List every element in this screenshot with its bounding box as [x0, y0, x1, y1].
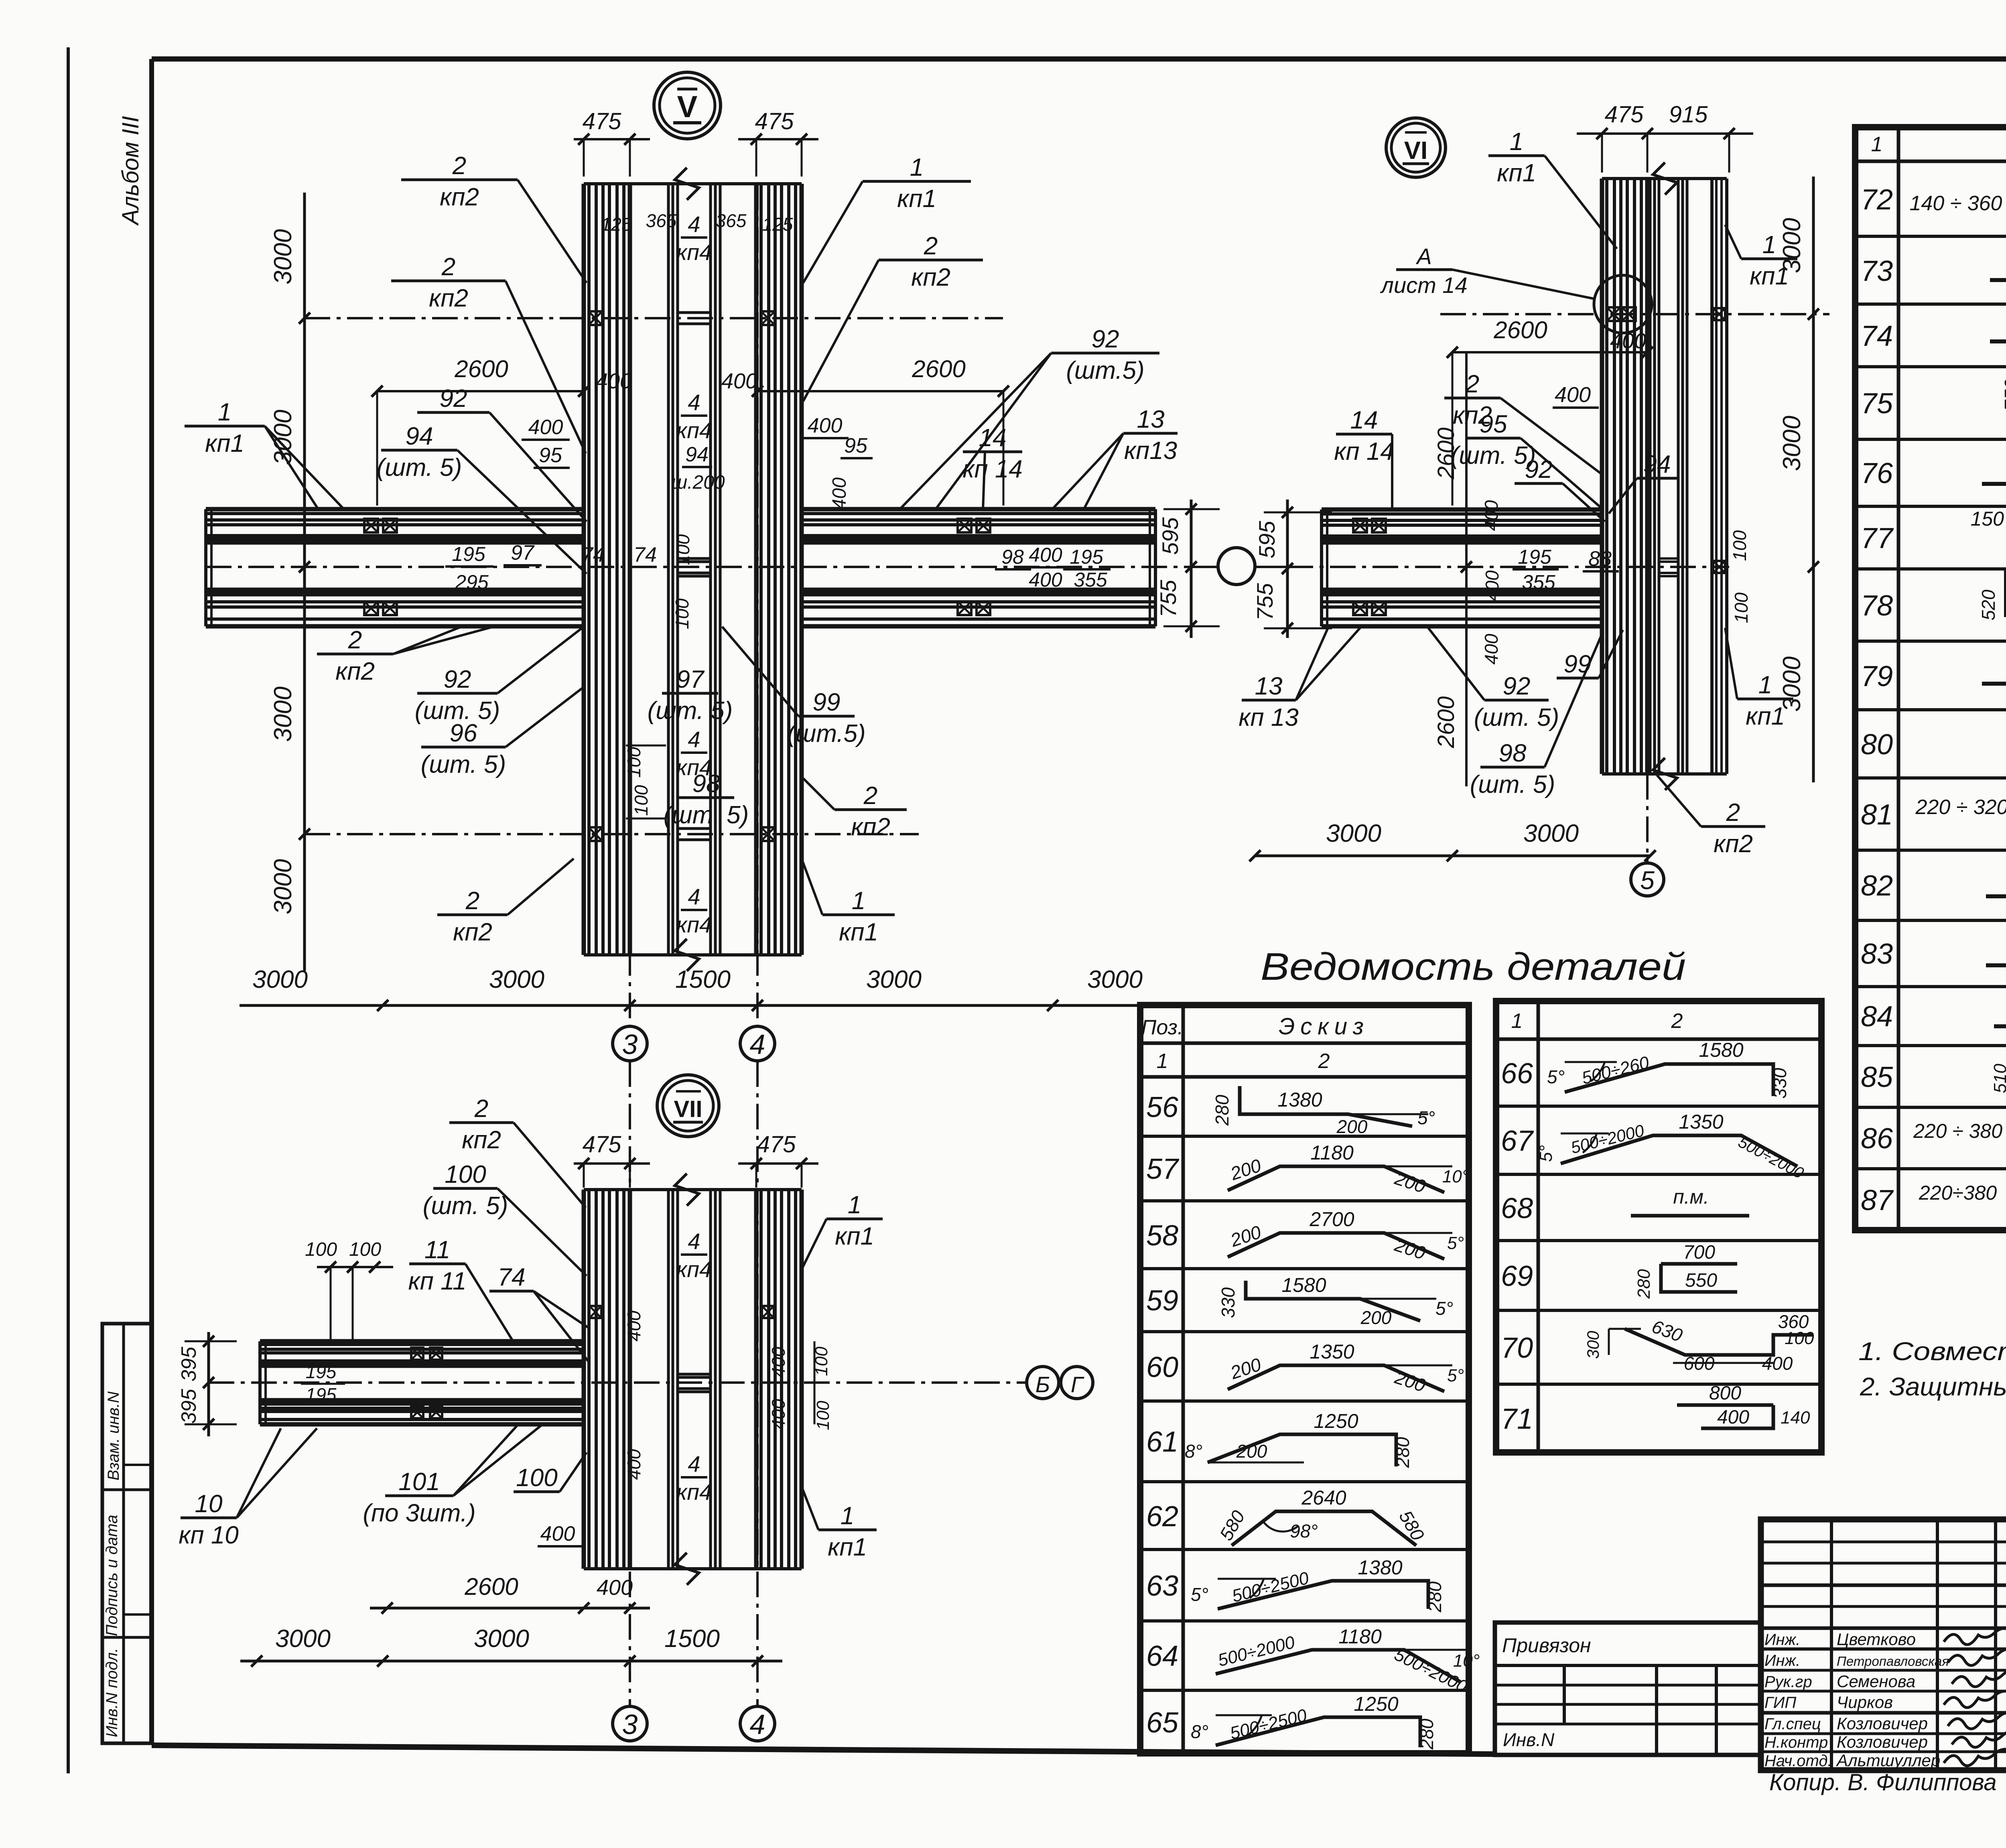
- svg-text:4: 4: [688, 211, 700, 237]
- svg-text:11: 11: [424, 1236, 450, 1264]
- svg-text:Козловичер: Козловичер: [1837, 1714, 1928, 1733]
- svg-text:кп1: кп1: [205, 430, 244, 457]
- label 1/kp1 VI right: [1737, 698, 1793, 701]
- svg-text:400: 400: [1717, 1407, 1749, 1428]
- svg-text:400: 400: [1610, 329, 1646, 353]
- detail V left dim chain 3000x4: [303, 193, 306, 971]
- svg-text:А: А: [1415, 244, 1431, 269]
- svg-text:2. Защитный слой бетона - 25: 2. Защитный слой бетона - 25мм.: [1860, 1372, 2006, 1401]
- label 94 sh5 left: [381, 449, 457, 452]
- detail V right end dims 595/755: [1190, 500, 1193, 638]
- svg-text:кп2: кп2: [335, 658, 375, 685]
- svg-text:63: 63: [1146, 1570, 1178, 1602]
- svg-text:2: 2: [924, 232, 938, 260]
- detail VI arm slabs: [1322, 508, 1602, 512]
- svg-text:V: V: [677, 90, 698, 124]
- label 92 left: [417, 411, 489, 414]
- svg-text:475: 475: [583, 108, 622, 134]
- svg-text:VII: VII: [674, 1096, 703, 1122]
- svg-text:Альбом III: Альбом III: [118, 116, 144, 226]
- svg-text:Копир. В. Филиппова: Копир. В. Филиппова: [1769, 1769, 1997, 1795]
- svg-text:395: 395: [177, 1346, 201, 1382]
- svg-text:400: 400: [829, 477, 850, 510]
- svg-text:400: 400: [623, 1449, 644, 1480]
- label 2/kp2 VII top: [449, 1121, 514, 1124]
- detail V bottom dim line: [240, 1004, 1157, 1007]
- sketch 65: [1216, 1717, 1420, 1747]
- svg-text:355: 355: [1074, 569, 1107, 591]
- svg-text:76: 76: [1861, 457, 1893, 489]
- vedomost table 56-65 grid: [1140, 1005, 1469, 1753]
- svg-text:3000: 3000: [1087, 966, 1143, 993]
- svg-text:220 ÷ 320: 220 ÷ 320: [1915, 796, 2006, 819]
- axis circle 5: [1631, 863, 1664, 896]
- svg-text:кп1: кп1: [897, 185, 936, 213]
- svg-text:5°: 5°: [1447, 1233, 1464, 1253]
- svg-text:1: 1: [1511, 1009, 1523, 1033]
- svg-text:2600: 2600: [1493, 317, 1547, 343]
- detail VI 2600 dim horizontal: [1452, 351, 1647, 353]
- svg-text:Козловичер: Козловичер: [1837, 1732, 1928, 1751]
- svg-text:92: 92: [444, 666, 471, 693]
- title block outer: [1761, 1519, 2006, 1770]
- svg-text:кп2: кп2: [440, 183, 479, 211]
- label 92 VI: [1515, 482, 1563, 485]
- svg-text:355: 355: [1522, 571, 1555, 593]
- svg-text:2: 2: [863, 782, 877, 810]
- svg-text:Ведомость деталей: Ведомость деталей: [1261, 945, 1686, 988]
- channel connectors: [678, 311, 711, 314]
- axis circle 4 bottom: [740, 1706, 775, 1741]
- svg-text:97: 97: [511, 541, 535, 565]
- svg-text:4: 4: [688, 1229, 700, 1254]
- title block horizontals: [1761, 1541, 2006, 1543]
- svg-text:475: 475: [755, 108, 794, 134]
- svg-text:94: 94: [685, 443, 709, 466]
- svg-text:98°: 98°: [1290, 1521, 1318, 1541]
- svg-text:365: 365: [716, 210, 747, 231]
- sketch 66: [1565, 1064, 1773, 1096]
- VI channel connectors: [1659, 557, 1678, 560]
- sketch 62: [1232, 1511, 1416, 1545]
- label 92 sh5 lower-left: [417, 692, 497, 695]
- svg-text:кп1: кп1: [835, 1223, 874, 1250]
- svg-text:Поз.: Поз.: [1141, 1016, 1184, 1039]
- detail V column band left: [582, 184, 586, 955]
- svg-text:520: 520: [1978, 589, 1999, 620]
- svg-text:Взам. инв.N: Взам. инв.N: [105, 1391, 122, 1480]
- svg-text:3000: 3000: [1326, 820, 1381, 847]
- svg-text:365: 365: [646, 210, 677, 231]
- svg-text:98: 98: [1001, 546, 1024, 568]
- svg-text:1180: 1180: [1338, 1625, 1382, 1648]
- svg-text:2: 2: [474, 1095, 488, 1123]
- svg-text:74: 74: [581, 543, 605, 567]
- label 1/kp1 VII right-bottom: [818, 1529, 877, 1531]
- svg-text:92: 92: [1092, 325, 1119, 353]
- svg-text:(шт. 5): (шт. 5): [423, 1192, 508, 1220]
- svg-text:лист 14: лист 14: [1380, 272, 1467, 298]
- svg-text:95: 95: [539, 444, 562, 467]
- svg-text:10°: 10°: [1442, 1167, 1469, 1186]
- svg-text:400: 400: [1481, 634, 1502, 664]
- svg-text:81: 81: [1861, 799, 1893, 831]
- label 100 VII low: [514, 1491, 560, 1493]
- left paper edge mark: [67, 47, 70, 1773]
- svg-text:4: 4: [688, 390, 700, 415]
- label 94 VI: [1637, 477, 1677, 480]
- label 10/kp10 VII: [181, 1517, 237, 1519]
- svg-text:1: 1: [1157, 1050, 1168, 1073]
- detail V channel right wall: [709, 184, 712, 955]
- svg-text:Цветково: Цветково: [1837, 1630, 1916, 1649]
- axis circle 4: [740, 1026, 775, 1061]
- svg-text:475: 475: [757, 1131, 796, 1158]
- svg-text:1: 1: [1762, 231, 1776, 259]
- svg-text:57: 57: [1146, 1153, 1180, 1185]
- svg-text:100: 100: [672, 534, 693, 565]
- vedomost table 66-71 grid: [1496, 1001, 1821, 1452]
- item 73 sketch: [1990, 278, 2006, 282]
- label 96 sh5: [421, 746, 506, 749]
- svg-text:3000: 3000: [489, 966, 544, 993]
- svg-text:кп 10: кп 10: [179, 1521, 239, 1549]
- svg-text:4: 4: [750, 1029, 765, 1060]
- detail VII arm axis with B G circles: [209, 1381, 1026, 1384]
- svg-text:4: 4: [750, 1709, 765, 1740]
- svg-text:2600: 2600: [464, 1573, 518, 1600]
- detail VII arm slabs: [260, 1339, 584, 1344]
- detail V transverse axis bottom: [305, 833, 919, 835]
- detail VI outer wall right: [1710, 179, 1714, 774]
- svg-text:кп1: кп1: [1497, 159, 1536, 187]
- svg-text:88: 88: [1588, 547, 1612, 571]
- svg-text:70: 70: [1501, 1332, 1533, 1364]
- svg-text:Семенова: Семенова: [1837, 1672, 1915, 1691]
- label 2/kp2 right-lower: [834, 808, 907, 811]
- svg-text:82: 82: [1861, 870, 1893, 902]
- detail VI left end dims 595/755: [1286, 500, 1289, 638]
- detail VI arm axis: [1287, 566, 1729, 568]
- svg-text:94: 94: [406, 422, 433, 450]
- svg-text:(шт. 5): (шт. 5): [1470, 771, 1555, 798]
- label 1/kp1 VI top-right: [1741, 258, 1797, 260]
- svg-text:2600: 2600: [454, 355, 508, 382]
- detail VI 2600 vertical chain: [1465, 352, 1468, 786]
- svg-text:300: 300: [1584, 1330, 1602, 1359]
- label A list14 with detail circle: [1594, 275, 1652, 333]
- svg-text:330: 330: [1769, 1068, 1790, 1099]
- svg-text:Б: Б: [1035, 1372, 1050, 1397]
- svg-text:79: 79: [1861, 660, 1893, 692]
- svg-text:5°: 5°: [1536, 1145, 1556, 1162]
- label 74 VII: [489, 1290, 534, 1293]
- svg-text:98: 98: [692, 770, 720, 798]
- svg-text:2: 2: [1671, 1009, 1683, 1033]
- svg-text:74: 74: [633, 543, 657, 567]
- left margin strip table: [102, 1324, 151, 1743]
- svg-text:4: 4: [688, 884, 700, 909]
- svg-text:150: 150: [1971, 508, 2004, 530]
- svg-text:64: 64: [1146, 1640, 1178, 1672]
- column bottom edge and break: [584, 953, 802, 956]
- label 99 VI: [1557, 677, 1599, 680]
- svg-text:3000: 3000: [474, 1625, 529, 1653]
- svg-text:14: 14: [1350, 406, 1378, 434]
- svg-text:1500: 1500: [664, 1625, 720, 1653]
- svg-text:2: 2: [452, 152, 466, 180]
- sketch 58: [1228, 1233, 1444, 1259]
- svg-text:3000: 3000: [269, 686, 297, 742]
- svg-text:195: 195: [1070, 546, 1103, 568]
- VII 100 100 top dims: [317, 1266, 393, 1268]
- VI splice symbols: [1607, 307, 1620, 321]
- svg-text:Инж.: Инж.: [1764, 1631, 1800, 1649]
- svg-text:(шт.5): (шт.5): [1066, 357, 1144, 384]
- svg-text:кп4: кп4: [676, 1479, 712, 1505]
- shared axis circle: [1218, 548, 1255, 585]
- svg-text:62: 62: [1146, 1501, 1178, 1533]
- svg-text:3000: 3000: [269, 229, 297, 284]
- label 2/kp2 VI bottom: [1701, 825, 1765, 828]
- svg-text:4: 4: [688, 727, 700, 752]
- svg-text:1: 1: [1510, 128, 1523, 156]
- svg-text:92: 92: [1503, 672, 1531, 700]
- svg-text:1380: 1380: [1358, 1556, 1402, 1579]
- label 2/kp2 right: [879, 259, 983, 262]
- svg-text:92: 92: [440, 385, 467, 412]
- svg-text:69: 69: [1501, 1260, 1533, 1292]
- detail V top 475 dims: [574, 138, 650, 140]
- svg-text:Инв.N подл.: Инв.N подл.: [103, 1648, 121, 1737]
- detail V axis 3: [629, 185, 631, 1026]
- svg-text:77: 77: [1861, 522, 1894, 554]
- svg-text:1350: 1350: [1679, 1111, 1723, 1133]
- svg-text:1250: 1250: [1314, 1410, 1358, 1432]
- svg-text:395: 395: [177, 1389, 201, 1424]
- detail V transverse axis top: [305, 317, 1003, 319]
- label 99 sh5: [798, 715, 855, 718]
- svg-text:220 ÷ 380: 220 ÷ 380: [1913, 1120, 2002, 1142]
- svg-text:кп1: кп1: [828, 1533, 867, 1561]
- svg-text:кп 13: кп 13: [1239, 704, 1299, 731]
- svg-text:200: 200: [1236, 1441, 1267, 1462]
- svg-text:2: 2: [1465, 370, 1479, 398]
- VII bottom dim 2600/400: [370, 1607, 650, 1610]
- svg-text:кп1: кп1: [839, 918, 878, 946]
- svg-text:3000: 3000: [269, 859, 297, 914]
- VII channel connectors: [678, 1373, 711, 1376]
- svg-text:65: 65: [1146, 1707, 1179, 1739]
- svg-text:800: 800: [1709, 1383, 1741, 1404]
- svg-text:2: 2: [348, 626, 362, 654]
- svg-text:95: 95: [1480, 410, 1507, 438]
- svg-text:71: 71: [1501, 1403, 1533, 1435]
- label 1/kp1 VII right-top: [826, 1218, 883, 1220]
- svg-text:4: 4: [688, 1451, 700, 1476]
- label 92 sh5 VI low: [1484, 699, 1549, 702]
- svg-text:100: 100: [623, 747, 644, 778]
- svg-text:3000: 3000: [1778, 416, 1806, 471]
- svg-text:14: 14: [979, 424, 1007, 452]
- detail VI column band left: [1600, 179, 1604, 774]
- svg-text:60: 60: [1146, 1351, 1178, 1383]
- svg-text:58: 58: [1146, 1220, 1178, 1252]
- svg-text:125: 125: [601, 214, 632, 235]
- svg-text:400: 400: [768, 1399, 789, 1430]
- svg-text:400: 400: [1029, 544, 1062, 566]
- detail V axis 4: [756, 185, 759, 1026]
- svg-text:400: 400: [540, 1522, 575, 1545]
- svg-text:кп2: кп2: [453, 918, 492, 946]
- svg-text:66: 66: [1501, 1058, 1533, 1090]
- svg-text:1380: 1380: [1277, 1088, 1322, 1111]
- svg-text:755: 755: [1252, 583, 1277, 620]
- svg-text:85: 85: [1861, 1061, 1893, 1093]
- svg-text:Рук.гр: Рук.гр: [1764, 1673, 1812, 1691]
- svg-text:1500: 1500: [675, 966, 731, 993]
- svg-text:61: 61: [1146, 1426, 1178, 1458]
- label 2/kp2 lower-left: [317, 653, 393, 656]
- svg-text:56: 56: [1146, 1091, 1179, 1123]
- label 2/kp2 top-left: [401, 179, 518, 181]
- svg-text:п.м.: п.м.: [1673, 1186, 1709, 1208]
- label 98 sh5: [678, 796, 734, 799]
- svg-text:400: 400: [721, 369, 757, 393]
- svg-text:700: 700: [1683, 1242, 1715, 1263]
- detail V column band right: [754, 184, 759, 955]
- sketch 70: [1625, 1329, 1813, 1355]
- detail VI right dim chain 3000: [1812, 177, 1815, 782]
- svg-text:510: 510: [1990, 1064, 2006, 1093]
- svg-text:80: 80: [1861, 729, 1893, 761]
- label 14/kp14 VI: [1336, 433, 1392, 436]
- svg-text:8°: 8°: [1191, 1721, 1208, 1742]
- svg-text:84: 84: [1861, 1001, 1893, 1033]
- splice symbols: [589, 311, 602, 325]
- detail V channel left wall: [667, 184, 670, 955]
- svg-text:400: 400: [1555, 383, 1591, 407]
- detail VI channel wall A: [1649, 179, 1652, 774]
- detail VI bottom dims: [1255, 855, 1650, 857]
- svg-text:86: 86: [1861, 1123, 1893, 1155]
- sketch 60: [1228, 1365, 1444, 1391]
- sketch 67: [1561, 1135, 1797, 1166]
- label 14/kp14: [963, 451, 1022, 453]
- svg-text:595: 595: [1157, 517, 1183, 554]
- svg-text:98: 98: [1499, 739, 1527, 767]
- svg-text:330: 330: [1218, 1287, 1239, 1318]
- svg-text:1: 1: [848, 1191, 861, 1219]
- svg-text:400: 400: [596, 369, 632, 393]
- svg-text:3: 3: [622, 1709, 638, 1740]
- svg-text:400: 400: [768, 1346, 789, 1377]
- svg-text:кп2: кп2: [1714, 830, 1753, 858]
- svg-text:400: 400: [623, 1310, 644, 1341]
- sketch 69: [1661, 1264, 1737, 1292]
- item 74 sketch: [1990, 339, 2006, 343]
- svg-text:94: 94: [1643, 451, 1671, 478]
- svg-text:13: 13: [1255, 672, 1283, 700]
- detail VII axes 3,4: [629, 1061, 631, 1706]
- svg-text:1: 1: [1871, 133, 1883, 156]
- axis circle 3: [613, 1026, 647, 1061]
- svg-text:(по 3шт.): (по 3шт.): [363, 1499, 475, 1527]
- detail VII top 475 dims: [574, 1162, 650, 1165]
- svg-text:кп2: кп2: [429, 284, 468, 312]
- svg-text:кп 14: кп 14: [962, 455, 1023, 483]
- axis circle 3 bottom: [613, 1706, 647, 1741]
- sketch 68: [1631, 1214, 1749, 1218]
- svg-text:Альтшуллер: Альтшуллер: [1835, 1751, 1940, 1770]
- svg-text:1: 1: [841, 1502, 854, 1530]
- svg-text:475: 475: [583, 1131, 622, 1158]
- svg-text:1: 1: [910, 154, 924, 181]
- svg-text:92: 92: [1525, 456, 1553, 483]
- svg-text:2: 2: [1726, 799, 1740, 827]
- svg-text:72: 72: [1861, 184, 1893, 216]
- privyazon table: [1495, 1623, 1761, 1755]
- svg-text:кп4: кп4: [676, 1257, 712, 1282]
- svg-text:295: 295: [455, 571, 489, 593]
- svg-text:195: 195: [452, 543, 485, 565]
- svg-text:Чирков: Чирков: [1837, 1693, 1893, 1712]
- svg-text:2600: 2600: [912, 355, 965, 382]
- svg-text:1350: 1350: [1310, 1340, 1354, 1363]
- svg-text:Инв.N: Инв.N: [1503, 1729, 1555, 1750]
- item 79 sketch: [1982, 682, 2006, 686]
- svg-text:915: 915: [1669, 102, 1708, 128]
- svg-text:595: 595: [1254, 520, 1279, 558]
- svg-text:1: 1: [852, 887, 865, 915]
- svg-text:5°: 5°: [1417, 1107, 1435, 1128]
- svg-text:99: 99: [1564, 650, 1592, 678]
- svg-text:100: 100: [1729, 530, 1750, 561]
- svg-text:195: 195: [306, 1361, 337, 1382]
- svg-text:5: 5: [1640, 866, 1655, 895]
- svg-text:кп2: кп2: [462, 1126, 501, 1154]
- svg-text:Гл.спец: Гл.спец: [1764, 1715, 1821, 1733]
- svg-text:Привязон: Привязон: [1502, 1634, 1591, 1657]
- label 1/kp1 VI top-left: [1488, 154, 1545, 157]
- detail VII marker circle: [657, 1075, 719, 1137]
- svg-text:100: 100: [516, 1464, 557, 1492]
- label 13/kp13: [1123, 432, 1178, 435]
- sketch 57: [1228, 1166, 1444, 1192]
- svg-text:140 ÷ 360: 140 ÷ 360: [1910, 192, 2002, 215]
- svg-text:100: 100: [445, 1161, 486, 1188]
- svg-text:(шт. 5): (шт. 5): [421, 751, 506, 778]
- svg-text:99: 99: [813, 688, 841, 716]
- label 92 sh5 right: [1051, 352, 1159, 355]
- svg-text:3: 3: [622, 1029, 638, 1060]
- detail V arm right slabs: [802, 507, 1155, 512]
- svg-text:195: 195: [1518, 546, 1551, 568]
- svg-text:5°: 5°: [1547, 1066, 1565, 1087]
- detail VI transverse axis: [1440, 313, 1829, 315]
- svg-text:кп4: кп4: [676, 912, 712, 937]
- column top edge and break: [584, 182, 802, 185]
- svg-text:Подпись и дата: Подпись и дата: [103, 1515, 121, 1636]
- sketch 71: [1677, 1403, 1773, 1407]
- svg-text:2600: 2600: [1433, 696, 1459, 748]
- item 83 sketch: [1986, 963, 2006, 967]
- svg-text:1580: 1580: [1699, 1039, 1743, 1061]
- svg-text:100: 100: [1731, 592, 1752, 623]
- svg-text:Эскиз: Эскиз: [1279, 1013, 1369, 1040]
- svg-text:кп1: кп1: [1746, 703, 1785, 730]
- svg-text:83: 83: [1861, 938, 1893, 970]
